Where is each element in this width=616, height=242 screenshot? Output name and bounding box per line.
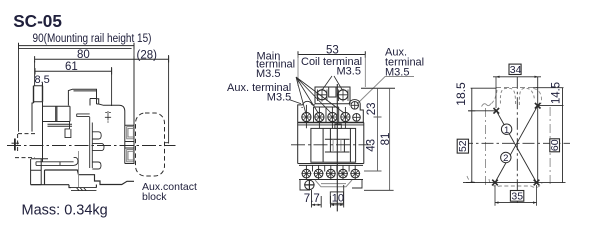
svg-text:23: 23 xyxy=(366,102,378,115)
top indicator tab xyxy=(335,124,341,128)
dimension 53 line xyxy=(298,51,365,57)
diagonal 1 xyxy=(496,111,536,183)
body face tab 1 xyxy=(92,132,101,139)
dimension 14.5 label xyxy=(550,82,562,104)
dimension 34 box xyxy=(509,64,522,76)
terminal deck outline xyxy=(298,103,364,122)
upper screw row clamp lines xyxy=(302,105,350,128)
title SC-05 xyxy=(13,11,62,31)
bottom screw 2 xyxy=(314,169,324,178)
left foot xyxy=(300,180,310,191)
dimension 61 line xyxy=(35,68,112,74)
body right edge xyxy=(125,61,134,164)
din clip cross tick xyxy=(12,142,20,144)
right shoulder screw xyxy=(351,102,359,110)
aux contact block label xyxy=(142,181,197,203)
bottom screw 3 xyxy=(326,169,336,178)
extension 35 right xyxy=(536,185,538,206)
side terminal screws gray xyxy=(127,127,134,162)
label aux terminal right xyxy=(385,47,424,79)
left dim vertical xyxy=(466,88,475,182)
dimension 10 label box xyxy=(330,192,344,205)
extension 34 right xyxy=(537,77,539,183)
right foot xyxy=(352,180,362,189)
aux contact block dashed capsule xyxy=(136,113,165,176)
extension line x168.6 xyxy=(164,55,169,144)
mounting screw symbol xyxy=(105,111,111,122)
svg-text:10: 10 xyxy=(332,193,344,205)
svg-text:7.7: 7.7 xyxy=(304,193,320,205)
dimension 7.7 arrows xyxy=(312,204,322,206)
din release slot bar xyxy=(36,157,78,165)
dimension 23 label xyxy=(366,102,378,115)
upper screw 4 xyxy=(340,112,350,121)
top ref right xyxy=(533,87,564,89)
extension 34 left xyxy=(495,77,497,108)
base bottom outline xyxy=(31,170,134,188)
left shoulder dome xyxy=(303,101,312,105)
coil screw 2 xyxy=(338,89,348,102)
svg-text:M3.5: M3.5 xyxy=(267,91,291,103)
hole level line left xyxy=(468,110,496,112)
phantom left side dashdot xyxy=(485,108,487,186)
phantom left corner xyxy=(482,90,498,107)
dimension 61 label xyxy=(65,61,78,73)
svg-text:SC-05: SC-05 xyxy=(13,11,62,31)
mass label xyxy=(22,203,108,219)
dimension 34 line xyxy=(493,76,541,78)
svg-text:81: 81 xyxy=(380,133,392,146)
callout 2 xyxy=(501,152,511,164)
dimension 80 label xyxy=(77,49,90,61)
dimension 81 label xyxy=(380,133,392,146)
bottom deck bottom xyxy=(299,179,363,181)
right aux lower screw xyxy=(353,114,361,122)
dimension 90 label xyxy=(33,33,152,45)
body left edge xyxy=(32,103,34,132)
svg-text:18.5: 18.5 xyxy=(456,82,468,106)
FRONT VIEW GROUP xyxy=(227,44,424,211)
upper screw 1 xyxy=(301,112,311,121)
horizontal centerline xyxy=(461,142,570,144)
dim vertical 81 xyxy=(364,88,394,190)
phantom right corner xyxy=(534,89,542,104)
center mechanism xyxy=(325,128,350,152)
dimension 52 box xyxy=(457,139,469,153)
SIDE VIEW GROUP xyxy=(7,33,197,203)
svg-text:60: 60 xyxy=(549,139,561,151)
extension 53 left xyxy=(297,55,299,87)
marked screw bottom left xyxy=(304,180,314,190)
dimension 60 box xyxy=(549,139,561,152)
din clip thick segment xyxy=(14,139,16,151)
inner verticals xyxy=(323,128,350,162)
mid horizontal xyxy=(77,114,90,117)
bottom screw 4 xyxy=(338,169,348,178)
svg-text:14.5: 14.5 xyxy=(550,82,562,104)
hole TL xyxy=(494,108,500,114)
svg-text:35: 35 xyxy=(511,191,523,203)
svg-text:34: 34 xyxy=(510,64,522,76)
svg-text:M3.5: M3.5 xyxy=(337,66,361,78)
mid body outer xyxy=(298,123,364,164)
body face tab 3 xyxy=(92,162,101,169)
din rail clip dashed xyxy=(15,134,36,158)
extension 35 left xyxy=(494,185,496,206)
svg-text:M3.5: M3.5 xyxy=(256,68,280,80)
deck bottom lines xyxy=(298,123,364,125)
svg-text:43: 43 xyxy=(365,139,377,152)
dimension (28) label xyxy=(137,50,158,62)
leaders coil xyxy=(323,76,343,90)
svg-text:block: block xyxy=(142,191,167,203)
coil screw 1 xyxy=(317,89,327,102)
phantom top dashed xyxy=(496,87,538,89)
dimension 53 label xyxy=(326,44,339,56)
diagonal 2 xyxy=(495,106,538,183)
shelf double lines xyxy=(48,124,73,126)
upper screw 3 xyxy=(327,112,337,121)
upper screw 2 xyxy=(314,112,324,121)
label coil terminal xyxy=(301,56,362,78)
shelf and coil window cells xyxy=(43,106,71,121)
svg-text:Mass: 0.34kg: Mass: 0.34kg xyxy=(22,203,108,219)
coil block xyxy=(315,87,350,104)
top tab 8.5 xyxy=(34,61,43,162)
right dim vertical xyxy=(562,88,564,183)
body face verticals xyxy=(90,117,93,168)
dimension 7.7 label xyxy=(304,193,320,205)
bottom ref line xyxy=(463,182,566,184)
extension line x134 xyxy=(133,43,135,61)
callout 1 xyxy=(501,124,511,136)
dimension 80/(28) line xyxy=(35,56,169,62)
leaders main terminal xyxy=(296,77,344,114)
dimension 8,5 line xyxy=(34,83,43,89)
extension line left x18.5 xyxy=(18,43,20,132)
hole TR xyxy=(535,103,541,109)
right shoulder dome xyxy=(349,100,360,104)
MOUNTING VIEW GROUP xyxy=(456,64,570,206)
bottom screw clamps xyxy=(306,166,355,181)
center mech gray slots xyxy=(333,139,341,152)
hole BL xyxy=(492,180,498,186)
hole level line right xyxy=(538,105,564,107)
body bottom shelf xyxy=(298,164,364,166)
hole BR xyxy=(534,180,540,186)
svg-text:2: 2 xyxy=(503,153,508,164)
bottom screw 1 xyxy=(301,169,311,178)
dimension 43 label xyxy=(365,139,377,152)
label aux terminal left xyxy=(227,82,291,103)
label main terminal xyxy=(256,51,295,80)
base gray core line xyxy=(78,151,80,187)
bottom screw 5 xyxy=(350,169,360,178)
center feet gray xyxy=(315,180,352,187)
dimension 10 arrows xyxy=(331,204,344,206)
vertical centerline xyxy=(516,77,518,203)
inner box xyxy=(311,128,356,162)
top ref left xyxy=(471,87,497,89)
dimension 18.5 label xyxy=(456,82,468,106)
extension line x111.6 xyxy=(111,67,113,106)
base foot pads xyxy=(71,188,96,191)
right top reference line xyxy=(361,87,395,89)
dimension 90 line xyxy=(19,43,135,49)
front horizontal centerline xyxy=(291,144,371,146)
front center vertical xyxy=(336,84,338,211)
phantom hanging arcs xyxy=(500,88,534,105)
leader aux left xyxy=(289,100,301,104)
body face tab 2 xyxy=(92,143,104,150)
leader aux right gray xyxy=(357,77,414,105)
dimension 8,5 label xyxy=(35,74,50,86)
dimension 35 box xyxy=(510,191,523,203)
svg-text:52: 52 xyxy=(457,140,469,152)
dim vertical 23/43 xyxy=(364,88,382,171)
dimension 35 line xyxy=(495,201,537,203)
phantom bottom dashed xyxy=(467,176,542,187)
svg-text:1: 1 xyxy=(504,125,509,136)
phantom right side dashdot xyxy=(549,107,551,186)
arc chamber hump xyxy=(68,89,98,105)
left step square xyxy=(65,122,71,138)
extension 53 right xyxy=(364,55,366,88)
lower left leg xyxy=(31,159,48,185)
bottom dim verticals xyxy=(312,185,344,208)
body top edge xyxy=(97,104,125,164)
centerline side view xyxy=(7,145,176,147)
